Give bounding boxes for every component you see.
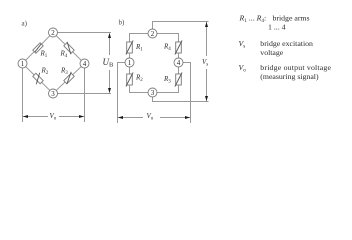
- wire node1 to R2: [129, 67, 131, 74]
- wire node2 to right rail: [57, 32, 111, 34]
- wire node2 left to corner: [130, 34, 149, 43]
- dimension line Vo b) right segment: [160, 117, 190, 119]
- wire node1 down extension: [22, 68, 24, 122]
- svg-text:3: 3: [151, 89, 155, 97]
- wire node2 right to corner: [157, 34, 179, 43]
- wire node1 left stub and down extension: [118, 63, 126, 124]
- wire node4 right stub and down extension: [183, 63, 191, 124]
- wire arm 2-4: [53, 33, 85, 64]
- arrowhead left (Vo b): [118, 116, 123, 119]
- resistor R4 symbol b): [175, 41, 182, 55]
- svg-text:1: 1: [128, 59, 132, 67]
- svg-text:1 ... 4: 1 ... 4: [268, 22, 286, 31]
- dimension line Vo a) left segment: [23, 116, 48, 118]
- node 4: [80, 59, 89, 68]
- arrowhead up (UB top): [108, 33, 111, 38]
- wire arm 1-3: [23, 64, 54, 94]
- arrowhead right (Vo a): [79, 115, 84, 118]
- svg-text:4: 4: [83, 60, 87, 68]
- node 4 b): [174, 58, 183, 67]
- node 2 b): [148, 29, 157, 38]
- resistor R3 symbol b): [175, 73, 182, 87]
- resistor R4 symbol (arm 2-4): [64, 42, 74, 54]
- svg-text:4: 4: [177, 59, 181, 67]
- wire node4 to R3: [178, 67, 180, 74]
- dimension line UB (upper segment): [109, 34, 111, 56]
- wire node3 to right rail: [57, 93, 111, 95]
- svg-text:(measuring signal): (measuring signal): [260, 72, 319, 81]
- wire R3 to node3 corner: [157, 85, 179, 93]
- svg-text:a): a): [22, 20, 28, 28]
- arrowhead left (Vo a): [23, 115, 28, 118]
- svg-text:2: 2: [51, 29, 55, 37]
- arrowhead down (Vs bottom): [205, 96, 208, 101]
- svg-text:b): b): [119, 19, 126, 27]
- wire node3 down and right to Vs: [153, 97, 209, 102]
- dimension line Vs lower segment: [206, 69, 208, 101]
- arrowhead down (UB bottom): [108, 88, 111, 93]
- arrowhead up (Vs top): [205, 22, 208, 27]
- wire arm 1-2: [23, 33, 54, 64]
- node 2: [49, 28, 58, 37]
- dimension line Vo b) left segment: [118, 117, 143, 119]
- resistor R1 symbol b): [126, 41, 133, 55]
- node 1 b): [125, 58, 134, 67]
- wire node4 down extension: [84, 68, 86, 122]
- resistor R3 symbol (arm 3-4): [64, 72, 74, 84]
- wire R1 to node1: [129, 53, 131, 58]
- svg-text:bridge output voltage: bridge output voltage: [260, 63, 331, 72]
- svg-text:2: 2: [151, 30, 155, 38]
- wire arm 3-4: [53, 64, 85, 94]
- arrowhead right (Vo b): [185, 116, 190, 119]
- resistor R1 symbol (arm 1-2): [33, 43, 43, 53]
- svg-text:bridge arms: bridge arms: [273, 13, 310, 22]
- svg-text:1: 1: [21, 60, 25, 68]
- resistor R2 symbol b): [126, 73, 133, 87]
- node 3: [49, 89, 58, 98]
- node 3 b): [148, 88, 157, 97]
- dimension line UB (lower segment): [109, 70, 111, 93]
- svg-text:bridge excitation: bridge excitation: [260, 39, 313, 48]
- svg-text:3: 3: [51, 90, 55, 98]
- dimension line Vo a) right segment: [59, 116, 84, 118]
- wire node2 up and right to Vs: [153, 22, 209, 30]
- wire R4 to node4: [178, 53, 180, 58]
- resistor R2 symbol (arm 1-3): [33, 73, 43, 84]
- node 1: [18, 59, 27, 68]
- dimension line Vs upper segment: [206, 22, 208, 56]
- svg-text:voltage: voltage: [260, 48, 283, 57]
- wire R2 to node3 corner: [130, 85, 149, 93]
